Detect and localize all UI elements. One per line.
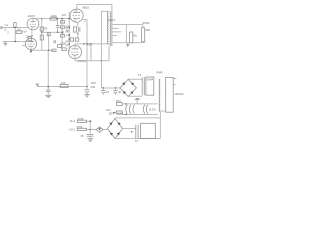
- node: [89, 120, 91, 122]
- resistor R20: [52, 49, 56, 52]
- resistor R8: [60, 35, 64, 37]
- resistor R2 cathode: [28, 37, 31, 41]
- wire: [114, 117, 116, 120]
- rectifier box: [146, 77, 154, 95]
- node: [90, 43, 91, 44]
- svg-text:R16: R16: [116, 99, 121, 103]
- node: [61, 18, 62, 19]
- ground: [84, 95, 89, 97]
- node: [69, 18, 70, 19]
- svg-text:PWR: PWR: [156, 70, 162, 74]
- svg-text:120VAC: 120VAC: [174, 92, 184, 96]
- svg-text:16Ω: 16Ω: [145, 28, 150, 32]
- wire secondary bottom: [113, 42, 145, 44]
- svg-text:R3: R3: [44, 27, 48, 31]
- capacitor C10: [136, 125, 138, 139]
- wire cathode rail: [31, 49, 54, 51]
- resistor R14 NFB: [60, 81, 68, 88]
- node: [86, 86, 87, 87]
- triode V1B 12AX7: [25, 34, 36, 50]
- transformer T3 primary winding: [159, 79, 160, 112]
- svg-text:6BQ5: 6BQ5: [82, 5, 89, 9]
- svg-text:BIAS: BIAS: [117, 111, 123, 115]
- svg-text:47K: 47K: [66, 33, 71, 37]
- wire bias bottom: [115, 138, 160, 140]
- wire: [123, 128, 136, 130]
- svg-text:CH 1: CH 1: [70, 119, 76, 123]
- wire bias top: [115, 117, 160, 119]
- resistor R6: [60, 21, 64, 23]
- ground: [45, 95, 51, 98]
- capacitor C5: [46, 90, 51, 95]
- resistor R12 load: [130, 32, 137, 43]
- node: [48, 86, 49, 87]
- node: [90, 129, 91, 130]
- wire mains: [173, 79, 176, 85]
- wire grid V1B: [22, 45, 26, 47]
- wire: [128, 78, 142, 80]
- node: [115, 87, 116, 88]
- node: [131, 131, 132, 132]
- resistor R17: [116, 111, 122, 114]
- pentode V2B 6BQ5: [68, 44, 86, 63]
- capacitor C2: [56, 19, 60, 33]
- transformer T1 primary: [107, 12, 108, 45]
- node: [69, 43, 70, 44]
- winding arcs 6.3V: [126, 105, 148, 114]
- node NFB tap: [36, 83, 40, 87]
- capacitor C4 cathode: [78, 27, 80, 31]
- node: [69, 39, 70, 40]
- wire heater feed: [112, 112, 116, 114]
- node: [30, 50, 31, 51]
- wire: [89, 121, 91, 134]
- ground: [87, 139, 93, 142]
- diode bridge D1-D4: [120, 79, 136, 96]
- node: [103, 87, 104, 88]
- svg-text:S-272: S-272: [108, 18, 115, 22]
- svg-text:100K: 100K: [51, 14, 57, 18]
- wire: [161, 110, 166, 112]
- wire ground rail: [3, 41, 34, 43]
- ground: [126, 43, 129, 47]
- svg-text:SPKR: SPKR: [142, 21, 149, 25]
- svg-text:1K: 1K: [65, 43, 68, 47]
- node: [69, 27, 70, 28]
- svg-text:47K: 47K: [65, 40, 70, 44]
- wire: [47, 50, 49, 89]
- node: [61, 32, 62, 33]
- capacitor C7: [101, 88, 109, 95]
- resistor R9 cathode: [73, 22, 78, 32]
- node: [125, 114, 126, 115]
- svg-text:R15: R15: [91, 81, 96, 85]
- resistor R4: [47, 32, 50, 51]
- resistor R7: [60, 26, 66, 46]
- cathode mark: [30, 51, 32, 53]
- resistor R3 plate load: [40, 18, 48, 50]
- svg-text:5AR4: 5AR4: [147, 78, 154, 82]
- ground: [3, 42, 7, 46]
- node: [83, 43, 84, 44]
- transformer T2 winding bars: [142, 77, 144, 95]
- svg-text:(6.3V): (6.3V): [149, 107, 156, 111]
- wire: [103, 129, 107, 131]
- svg-text:1M: 1M: [17, 28, 21, 32]
- transformer T1 secondary: [113, 25, 127, 43]
- svg-text:.047: .047: [61, 13, 67, 17]
- wire: [77, 32, 79, 38]
- wire PSU rail: [101, 87, 120, 89]
- svg-text:V1A: V1A: [22, 30, 27, 34]
- input jack J1: [1, 27, 28, 29]
- node: [31, 41, 32, 42]
- diode D9: [96, 127, 103, 132]
- node: [69, 34, 70, 35]
- wire NFB vertical: [83, 19, 87, 21]
- svg-text:10K: 10K: [61, 81, 66, 85]
- wire: [128, 95, 142, 97]
- resistor R18: [77, 117, 91, 123]
- svg-text:8Ω: 8Ω: [133, 34, 136, 38]
- capacitor C6: [85, 87, 90, 95]
- svg-text:D5-8: D5-8: [109, 111, 115, 115]
- node: [125, 103, 126, 104]
- wire heater rail top: [122, 103, 158, 105]
- wire: [90, 44, 92, 61]
- wire ladder vertical A: [61, 18, 63, 51]
- node: [86, 43, 87, 44]
- resistor R8b: [62, 48, 67, 51]
- wire B+ down line: [101, 11, 108, 88]
- node: [15, 41, 16, 42]
- wire NFB line: [38, 86, 88, 88]
- resistor R21: [58, 45, 62, 48]
- resistor R1 1M: [4, 28, 22, 35]
- wire plate line: [75, 43, 110, 45]
- resistor R16: [116, 99, 122, 105]
- wire: [42, 31, 62, 33]
- resistor R10: [70, 38, 73, 41]
- svg-text:CH 2: CH 2: [69, 127, 75, 131]
- transformer T4 box: [141, 123, 156, 138]
- resistor R19: [76, 125, 96, 131]
- wire B+ line: [33, 18, 69, 20]
- wire top plate line: [77, 4, 112, 11]
- center tap: [135, 98, 140, 104]
- capacitor C1: [5, 23, 17, 28]
- resistor R5: [50, 14, 57, 20]
- wire: [14, 28, 16, 42]
- svg-text:(6BQ5): (6BQ5): [78, 59, 86, 63]
- pentode V2A 6BQ5: [70, 4, 89, 22]
- capacitor C8: [113, 88, 121, 95]
- capacitor C3: [54, 40, 55, 43]
- transformer T1 core: [110, 11, 112, 46]
- diode bridge D5-D8: [108, 118, 123, 138]
- svg-text:270: 270: [66, 24, 71, 28]
- transformer T3 box: [166, 77, 174, 112]
- wire bottom: [75, 60, 109, 62]
- resistor R11: [75, 38, 78, 41]
- wire right vertical: [159, 112, 161, 139]
- node: [77, 33, 78, 34]
- svg-text:12AX7: 12AX7: [25, 34, 33, 38]
- wire ladder vertical C: [68, 12, 70, 52]
- capacitor C9: [81, 134, 94, 139]
- svg-text:C1: C1: [5, 23, 9, 27]
- resistor R13 load: [126, 21, 150, 42]
- triode V1A 12AX7: [27, 14, 39, 37]
- node: [57, 18, 58, 19]
- node: [57, 32, 58, 33]
- svg-text:FB: FB: [36, 83, 40, 87]
- wire heater rail bottom: [122, 113, 158, 115]
- svg-text:.005: .005: [90, 85, 96, 89]
- node grid V1A: [14, 27, 15, 28]
- svg-text:12AX7: 12AX7: [27, 14, 35, 18]
